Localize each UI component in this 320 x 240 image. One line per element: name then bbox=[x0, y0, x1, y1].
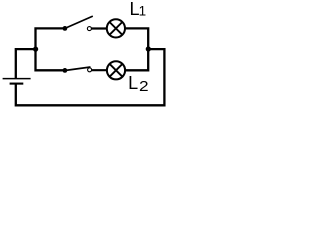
switch S1 pivot dot bbox=[63, 26, 68, 31]
switch S2 blade (almost closed) bbox=[65, 67, 91, 71]
svg-text:L: L bbox=[128, 73, 138, 93]
wire: battery positive to left junction (middle left wire + left vertical down to battery) bbox=[16, 49, 36, 78]
lamp L2 circle bbox=[107, 61, 125, 79]
battery B1 long plate (+) bbox=[3, 78, 31, 80]
lamp L2 cross bbox=[110, 64, 123, 77]
wire: battery negative down, bottom wire, right outer vertical, stub to right junction bbox=[16, 49, 165, 105]
switch S2 pivot dot bbox=[63, 68, 68, 73]
wire: inner left vertical with top and bottom branch starts bbox=[36, 28, 65, 70]
switch S1 blade (open) bbox=[65, 16, 93, 28]
svg-text:1: 1 bbox=[139, 4, 147, 19]
wire: bottom branch between switch contact and lamp L2 bbox=[91, 69, 108, 71]
wire: top branch between switch contact and lamp L1 bbox=[91, 27, 108, 29]
wire: right side of both branches + inner right vertical bbox=[125, 28, 149, 70]
lamp L1 circle bbox=[107, 19, 125, 37]
svg-text:2: 2 bbox=[139, 79, 149, 95]
switch S2 contact circle bbox=[88, 68, 92, 72]
switch S1 contact circle bbox=[87, 27, 91, 31]
node junction right bbox=[146, 46, 151, 51]
node junction left bbox=[33, 47, 38, 52]
lamp L1 cross bbox=[110, 22, 123, 35]
battery B1 short plate (-) bbox=[10, 83, 24, 85]
